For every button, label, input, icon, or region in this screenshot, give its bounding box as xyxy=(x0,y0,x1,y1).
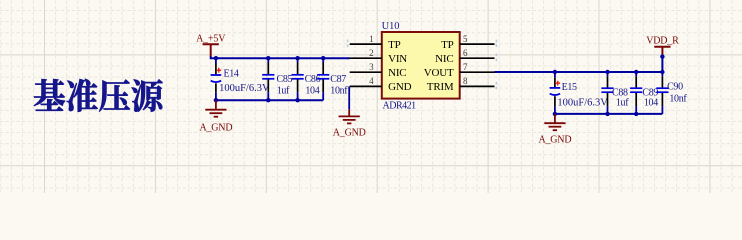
svg-text:TP: TP xyxy=(441,39,454,51)
svg-text:U10: U10 xyxy=(382,21,400,32)
svg-text:1uf: 1uf xyxy=(616,97,629,108)
svg-text:E15: E15 xyxy=(562,82,577,93)
svg-text:4: 4 xyxy=(369,76,374,86)
svg-text:A_GND: A_GND xyxy=(333,127,366,138)
svg-text:C85: C85 xyxy=(277,74,293,85)
svg-text:A_GND: A_GND xyxy=(538,135,571,146)
svg-text:E14: E14 xyxy=(224,69,239,80)
svg-text:1uf: 1uf xyxy=(277,86,290,97)
svg-text:10nf: 10nf xyxy=(669,94,687,105)
svg-text:C87: C87 xyxy=(330,74,346,85)
svg-text:8: 8 xyxy=(463,76,468,86)
svg-text:10nf: 10nf xyxy=(330,86,348,97)
svg-text:TRIM: TRIM xyxy=(427,81,454,93)
svg-text:NIC: NIC xyxy=(435,53,453,65)
svg-text:1: 1 xyxy=(369,34,374,44)
svg-text:104: 104 xyxy=(305,86,319,97)
svg-text:C90: C90 xyxy=(667,81,683,92)
svg-text:6: 6 xyxy=(463,48,468,58)
svg-text:A_GND: A_GND xyxy=(199,122,232,133)
svg-text:GND: GND xyxy=(388,81,411,93)
svg-text:TP: TP xyxy=(388,39,401,51)
svg-text:104: 104 xyxy=(644,97,658,108)
svg-text:NIC: NIC xyxy=(388,67,406,79)
svg-text:7: 7 xyxy=(463,62,468,72)
svg-text:100uF/6.3V: 100uF/6.3V xyxy=(219,83,270,94)
svg-text:100uF/6.3V: 100uF/6.3V xyxy=(557,97,608,108)
svg-text:VDD_R: VDD_R xyxy=(646,36,679,47)
svg-text:5: 5 xyxy=(463,34,468,44)
svg-text:A_+5V: A_+5V xyxy=(196,34,226,45)
svg-text:2: 2 xyxy=(369,48,374,58)
svg-text:VOUT: VOUT xyxy=(424,67,454,79)
svg-text:VIN: VIN xyxy=(388,53,407,65)
svg-text:3: 3 xyxy=(369,62,374,72)
svg-text:ADR421: ADR421 xyxy=(383,100,417,111)
